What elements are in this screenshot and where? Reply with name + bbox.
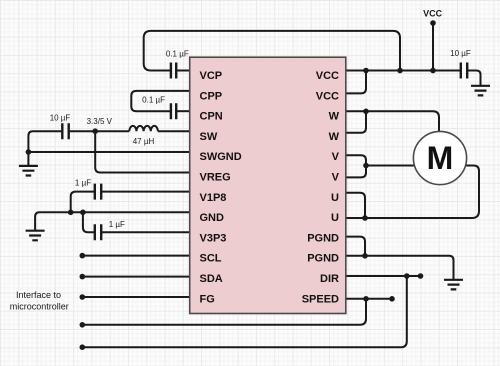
junction VCC pins: [363, 68, 369, 74]
wire V1P8 cap to GND rail: [71, 192, 95, 213]
capacitor C2 0.1µF plates (CPP-CPN): [171, 103, 176, 119]
wire SPEED: [346, 298, 392, 300]
wire VCP top loop to VCC rail: [144, 31, 400, 71]
svg-text:CPP: CPP: [200, 90, 223, 102]
wire DIR return to left: [82, 276, 407, 347]
svg-text:SPEED: SPEED: [302, 293, 339, 305]
capacitor C3 10µF plates: [62, 123, 68, 139]
wire SDA: [82, 276, 189, 278]
svg-text:DIR: DIR: [320, 273, 339, 285]
svg-text:U: U: [331, 192, 339, 204]
svg-text:microcontroller: microcontroller: [10, 301, 69, 311]
wire V3P3 cap up to GND rail: [83, 212, 95, 232]
junction V pins: [363, 163, 369, 169]
wire SWGND: [28, 151, 189, 153]
wire W1 to motor: [346, 111, 439, 131]
wire PGND2 to ground: [346, 256, 454, 279]
svg-text:CPN: CPN: [200, 111, 223, 123]
terminal dot DIR return: [80, 344, 86, 350]
terminal dot VCC: [430, 20, 436, 26]
svg-text:47 µH: 47 µH: [133, 137, 155, 146]
svg-text:VCC: VCC: [423, 9, 443, 19]
wire U2 stub: [346, 217, 365, 219]
wire U1 curve: [346, 193, 365, 218]
capacitor C6 10µF plates (VCC): [461, 63, 467, 79]
svg-text:Interface to: Interface to: [16, 290, 61, 300]
wire V2 curve: [346, 166, 366, 178]
junction U pins: [362, 215, 368, 221]
wire CPP loop: [131, 91, 189, 111]
junction VCC supply on rail: [430, 68, 436, 74]
svg-text:VREG: VREG: [200, 172, 231, 184]
svg-text:M: M: [427, 140, 454, 176]
terminal dot DIR: [418, 273, 424, 279]
wire FG: [82, 296, 189, 298]
svg-text:V1P8: V1P8: [200, 192, 227, 204]
svg-text:SW: SW: [200, 131, 218, 143]
wire PGND1 curve: [346, 237, 365, 256]
junction V1P8 cap on GND rail: [68, 210, 74, 216]
wire 10µF cap left down to ground: [28, 131, 62, 165]
capacitor C5 1µF plates (V3P3): [95, 224, 101, 240]
svg-text:V3P3: V3P3: [200, 232, 227, 244]
wire DIR: [346, 275, 421, 277]
wire SPEED return to left: [82, 299, 366, 325]
wire inductor to 10µF cap: [69, 130, 130, 132]
ground G2: [26, 231, 45, 241]
wire V3P3 stub: [101, 231, 190, 233]
capacitor C4 1µF plates (V1P8): [95, 184, 101, 200]
wire CPN stub: [176, 110, 190, 112]
junction PGND pins: [362, 253, 368, 259]
svg-text:SWGND: SWGND: [200, 151, 242, 163]
wire GND to ground: [35, 212, 190, 230]
junction SPEED return: [363, 296, 369, 302]
junction top loop on VCC rail: [397, 68, 403, 74]
junction V3P3 cap on GND rail: [80, 210, 86, 216]
terminal dot SPEED return: [80, 322, 86, 328]
wire SW to inductor: [158, 130, 190, 132]
terminal dot SDA: [80, 274, 86, 280]
svg-text:W: W: [329, 131, 340, 143]
junction SWGND/ground: [26, 149, 32, 155]
terminal dot FG: [80, 294, 86, 300]
svg-text:10 µF: 10 µF: [50, 113, 71, 122]
junction DIR return: [404, 273, 410, 279]
svg-text:VCC: VCC: [316, 90, 339, 102]
capacitor C1 0.1µF plates (VCP): [171, 63, 176, 79]
motor M1: [413, 131, 466, 184]
wire V1P8 stub: [101, 191, 190, 193]
svg-text:SCL: SCL: [200, 253, 222, 265]
svg-text:1 µF: 1 µF: [109, 220, 125, 229]
svg-text:10 µF: 10 µF: [450, 49, 471, 58]
wire VCP stub: [176, 70, 190, 72]
junction W pins: [363, 109, 369, 115]
wire VREG from 3.3/5V node: [95, 131, 190, 172]
terminal dot SCL: [80, 253, 86, 259]
IC U1 motor driver block: [190, 57, 346, 313]
svg-text:GND: GND: [200, 212, 225, 224]
ground G1: [19, 166, 38, 176]
svg-text:FG: FG: [200, 293, 215, 305]
svg-text:VCC: VCC: [316, 70, 339, 82]
svg-text:1 µF: 1 µF: [75, 179, 91, 188]
junction 3.3/5V node: [92, 128, 98, 134]
wire VCC cap to ground: [467, 71, 480, 86]
svg-text:V: V: [332, 172, 340, 184]
ground G4: [444, 280, 463, 290]
svg-text:U: U: [331, 212, 339, 224]
svg-text:PGND: PGND: [307, 232, 339, 244]
svg-text:V: V: [332, 151, 340, 163]
svg-text:0.1 µF: 0.1 µF: [142, 96, 165, 105]
svg-text:W: W: [329, 111, 340, 123]
svg-text:VCP: VCP: [200, 70, 223, 82]
wire U2 from motor right: [365, 166, 479, 219]
svg-text:3.3/5 V: 3.3/5 V: [87, 117, 113, 126]
svg-text:SDA: SDA: [200, 273, 223, 285]
svg-text:0.1 µF: 0.1 µF: [166, 49, 189, 58]
wire VCC supply stub: [432, 23, 434, 71]
terminal dot SPEED: [389, 296, 395, 302]
inductor L1 47µH: [129, 126, 158, 131]
wire W2 loop: [346, 111, 366, 133]
svg-text:PGND: PGND: [307, 253, 339, 265]
wire VCC rail: [346, 70, 461, 72]
wire V1 curve: [346, 155, 366, 165]
wire V to motor: [366, 165, 414, 167]
wire SCL: [82, 255, 189, 257]
wire VCC2 loop: [346, 71, 366, 94]
ground G3: [471, 86, 490, 96]
